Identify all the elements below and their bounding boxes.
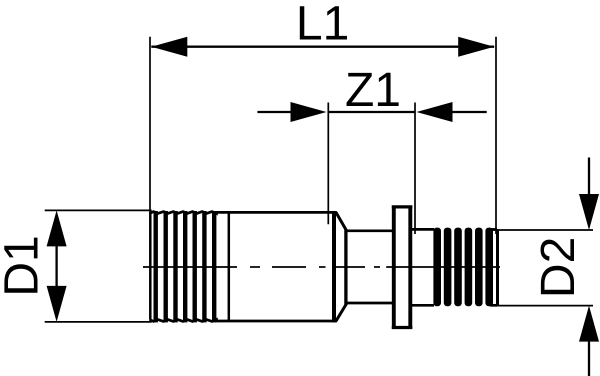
barb rib 2 [444, 228, 452, 307]
sleeve rib 7 [212, 211, 216, 322]
collar bottom edge [392, 326, 413, 329]
right end bottom ledge [490, 304, 497, 307]
svg-text:D2: D2 [532, 237, 585, 298]
barb rib 5 [475, 228, 483, 307]
dimension D2 extension line bottom [492, 305, 593, 307]
centerline segment 2 [250, 266, 260, 268]
dimension Z1 tail right [452, 111, 487, 113]
fitting body left face [149, 213, 152, 320]
middle cylinder bottom edge [345, 302, 393, 305]
sleeve rib 5 [193, 211, 197, 322]
barb rib 3 [454, 228, 462, 307]
barb rib 6 [485, 228, 493, 307]
dimension D2 arrowhead top [579, 194, 599, 230]
dimension L1 extension line right [495, 37, 497, 234]
dimension D1 arrowhead top [47, 210, 67, 246]
sleeve rib 1 [154, 211, 158, 322]
sleeve rib zone boundary line [228, 212, 231, 321]
dimension D1 line [55, 245, 57, 287]
sleeve rib 6 [202, 211, 206, 322]
right cylinder top edge [410, 228, 434, 231]
centerline segment 7 [386, 266, 500, 268]
centerline segment 3 [272, 266, 306, 268]
dimension L1 line [151, 46, 494, 48]
dimension D2 tail bottom [588, 341, 590, 376]
svg-text:Z1: Z1 [345, 64, 401, 117]
barb rib 1 [433, 228, 441, 307]
centerline segment 6 [374, 266, 380, 268]
collar left face [392, 206, 396, 330]
fitting body right face [332, 211, 336, 322]
dimension D1 extension line top [45, 209, 152, 211]
dimension Z1 tail left [257, 111, 291, 113]
sleeve rib 3 [173, 211, 177, 322]
fitting body bottom edge left section [150, 320, 337, 322]
fitting body top edge left section [150, 212, 337, 214]
svg-text:L1: L1 [296, 0, 349, 51]
dimension Z1 extension line right [414, 103, 416, 235]
dimension D2 arrowhead bottom [579, 306, 599, 342]
sleeve rib 4 [183, 211, 187, 322]
dimension Z1 arrowhead right [417, 102, 453, 122]
centerline segment 1 [143, 266, 237, 268]
middle cylinder top edge [345, 229, 393, 232]
dimension L1 arrowhead right [458, 37, 494, 57]
svg-text:D1: D1 [0, 235, 49, 296]
collar top edge [392, 205, 413, 208]
right end top ledge [490, 228, 497, 231]
centerline segment 5 [333, 266, 365, 268]
dimension D1 extension line bottom [45, 321, 152, 323]
collar right face [408, 206, 412, 330]
dimension D2 extension line top [492, 229, 593, 231]
dimension D2 tail top [588, 158, 590, 196]
centerline segment 4 [319, 266, 326, 268]
sleeve rib 2 [164, 211, 168, 322]
cone bottom chamfer [336, 305, 346, 322]
dimension Z1 line inner [328, 111, 415, 113]
cone top chamfer [336, 212, 346, 229]
barb rib 4 [465, 228, 473, 307]
dimension L1 arrowhead left [151, 37, 187, 57]
dimension Z1 arrowhead left [291, 102, 327, 122]
dimension L1 extension line left [149, 37, 151, 214]
dimension Z1 extension line left [327, 103, 329, 225]
right end face [496, 229, 499, 305]
cone end face [344, 229, 347, 305]
right cylinder bottom edge [410, 304, 434, 307]
dimension D1 arrowhead bottom [47, 286, 67, 322]
